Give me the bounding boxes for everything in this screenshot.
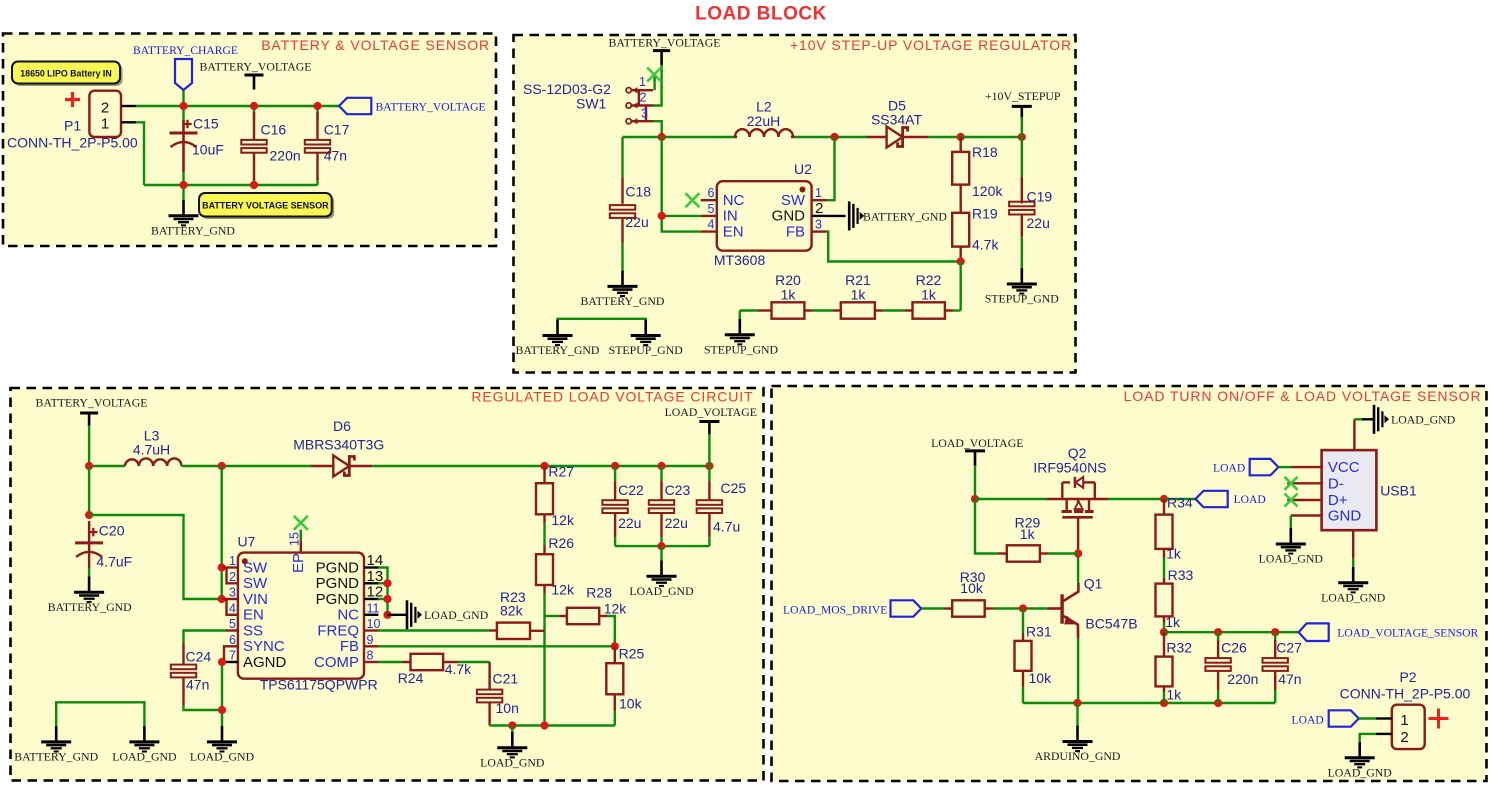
- wire power to SW1 pin2: [653, 65, 662, 105]
- svg-text:LOAD_VOLTAGE: LOAD_VOLTAGE: [931, 436, 1023, 450]
- ground LOAD_GND under C21: [511, 726, 513, 734]
- wire SW net vertical to U7: [220, 466, 222, 599]
- svg-text:220n: 220n: [270, 148, 301, 164]
- USB1 pin GND: [1291, 514, 1322, 516]
- svg-text:BATTERY_VOLTAGE: BATTERY_VOLTAGE: [609, 35, 721, 49]
- capacitor C26 220n: [1217, 632, 1219, 640]
- svg-text:2: 2: [101, 100, 109, 117]
- ground LOAD_GND under C23: [660, 561, 663, 577]
- svg-text:R24: R24: [398, 670, 424, 686]
- svg-text:10k: 10k: [619, 696, 643, 712]
- svg-text:AGND: AGND: [243, 654, 287, 671]
- svg-text:ARDUINO_GND: ARDUINO_GND: [1035, 749, 1121, 763]
- resistor R28 12k: [545, 615, 559, 617]
- svg-text:BATTERY_GND: BATTERY_GND: [151, 223, 235, 237]
- svg-text:L2: L2: [756, 99, 772, 115]
- sticker label 18650 LIPO Battery IN: [15, 64, 123, 86]
- U2 pin 2 GND: [812, 215, 826, 217]
- port BATTERY_CHARGE: [175, 59, 192, 90]
- wire C19 branch: [1021, 137, 1023, 177]
- battery plus polarity mark: [65, 98, 80, 101]
- svg-text:R25: R25: [619, 645, 645, 661]
- svg-text:CONN-TH_2P-P5.00: CONN-TH_2P-P5.00: [7, 135, 138, 151]
- resistor R23 82k on FREQ: [378, 629, 489, 631]
- svg-text:VIN: VIN: [243, 591, 268, 608]
- resistor R18 120k: [960, 137, 962, 152]
- svg-text:EN: EN: [243, 607, 264, 624]
- block frame: LOAD TURN ON/OFF & LOAD VOLTAGE SENSOR: [772, 386, 1487, 781]
- junction rail/+10V stem: [1018, 133, 1026, 141]
- svg-text:3: 3: [815, 218, 822, 232]
- diode D6 MBRS340T3G: [311, 465, 333, 467]
- svg-text:1k: 1k: [921, 287, 937, 303]
- svg-text:C16: C16: [261, 122, 287, 138]
- ground BATTERY_GND under C18: [621, 271, 624, 287]
- svg-text:BATTERY_GND: BATTERY_GND: [14, 750, 98, 764]
- port LOAD_VOLTAGE_SENSOR: [1299, 623, 1329, 641]
- sensor line: [1164, 631, 1299, 633]
- svg-text:LOAD_GND: LOAD_GND: [1391, 413, 1456, 427]
- svg-text:LOAD: LOAD: [1213, 462, 1245, 475]
- wire USB1 GND to ground: [1290, 516, 1292, 530]
- no-connect X on D-: [1285, 477, 1298, 490]
- U7 pin 7 AGND: [222, 661, 238, 663]
- svg-text:C26: C26: [1221, 640, 1247, 656]
- capacitor C21 10n: [488, 662, 490, 690]
- svg-text:10k: 10k: [960, 580, 984, 596]
- junction L2/D5 rail to U2 SW: [830, 133, 838, 141]
- U7 pin 4 EN tie to VIN: [227, 599, 238, 615]
- P1 pin 2: [121, 105, 136, 107]
- svg-text:LOAD_VOLTAGE: LOAD_VOLTAGE: [665, 405, 757, 419]
- svg-text:1: 1: [639, 75, 646, 89]
- USB1 bottom shield pin: [1352, 530, 1354, 558]
- svg-text:2: 2: [229, 570, 236, 584]
- svg-text:LOAD_MOS_DRIVE: LOAD_MOS_DRIVE: [783, 603, 887, 616]
- svg-text:NC: NC: [337, 607, 359, 624]
- svg-text:NC: NC: [723, 192, 745, 209]
- diode D5 SS34AT: [867, 136, 887, 138]
- svg-text:U2: U2: [794, 161, 812, 177]
- svg-text:Q2: Q2: [1068, 445, 1087, 461]
- inductor L3 4.7uH: [125, 458, 182, 466]
- U7 pin 2 SW tie to pin1: [227, 568, 238, 584]
- svg-text:R19: R19: [972, 206, 998, 222]
- svg-text:1: 1: [229, 554, 236, 568]
- svg-text:10n: 10n: [496, 700, 519, 716]
- svg-text:C22: C22: [618, 482, 644, 498]
- svg-text:R34: R34: [1167, 494, 1193, 510]
- svg-text:P2: P2: [1399, 669, 1416, 685]
- svg-text:12k: 12k: [604, 601, 628, 617]
- svg-text:R33: R33: [1168, 567, 1194, 583]
- rail D6 to LOAD_VOLTAGE corner: [545, 465, 710, 467]
- junction SW1/rail: [658, 133, 666, 141]
- capacitor C24 47n: [182, 643, 184, 665]
- svg-text:LOAD BLOCK: LOAD BLOCK: [695, 4, 827, 25]
- svg-text:C23: C23: [665, 482, 691, 498]
- svg-text:LOAD_GND: LOAD_GND: [112, 750, 177, 764]
- svg-text:Q1: Q1: [1084, 575, 1103, 591]
- svg-text:4.7u: 4.7u: [713, 519, 740, 535]
- svg-text:4.7k: 4.7k: [445, 661, 472, 677]
- junction rail/R18: [957, 133, 965, 141]
- svg-text:4.7uF: 4.7uF: [96, 553, 132, 569]
- svg-text:REGULATED LOAD VOLTAGE CIRCUIT: REGULATED LOAD VOLTAGE CIRCUIT: [471, 389, 753, 405]
- ground LOAD_GND under P2: [1358, 742, 1361, 758]
- wire C15 branch: [182, 106, 184, 120]
- resistor R19 4.7k: [952, 213, 969, 247]
- svg-text:C17: C17: [324, 122, 350, 138]
- power symbol BATTERY_VOLTAGE: [80, 412, 98, 415]
- wire C17 branch: [316, 106, 318, 120]
- ground flag BATTERY_GND at U2 GND pin: [826, 215, 846, 217]
- svg-text:FB: FB: [340, 638, 359, 655]
- junction dots on rail: [85, 462, 93, 470]
- svg-text:EP: EP: [290, 553, 307, 573]
- wire battery branch down to C20: [88, 466, 90, 515]
- svg-text:10k: 10k: [1029, 670, 1053, 686]
- resistor R26 12k: [543, 514, 545, 523]
- svg-text:1k: 1k: [851, 287, 867, 303]
- svg-text:47n: 47n: [1278, 671, 1301, 687]
- svg-text:LOAD_GND: LOAD_GND: [1259, 552, 1324, 566]
- svg-text:P1: P1: [64, 118, 81, 134]
- U7 pin 3 VIN: [222, 598, 238, 600]
- wire P1 pin1 to bottom rail: [136, 122, 144, 185]
- svg-text:COMP: COMP: [314, 654, 359, 671]
- wire Q2 drain to R34/LOAD: [1108, 498, 1164, 500]
- wire P1 pin2 to rail: [136, 105, 339, 107]
- svg-text:BATTERY_VOLTAGE: BATTERY_VOLTAGE: [200, 60, 312, 74]
- ground LOAD_GND under USB1 GND: [1290, 528, 1293, 544]
- resistor R24 4.7k on COMP: [378, 661, 401, 663]
- svg-text:6: 6: [708, 186, 715, 200]
- ground STEPUP_GND under R20: [738, 319, 741, 335]
- transistor Q1 BC547B NPN: [1060, 594, 1063, 623]
- wire U2 SW pin up to rail: [827, 137, 835, 200]
- U7 pin 5 SS: [226, 629, 238, 631]
- wire PGND bus: [378, 568, 387, 615]
- resistor R30 10k: [921, 607, 944, 609]
- block frame: +10V STEP-UP VOLTAGE REGULATOR: [514, 35, 1076, 373]
- IC U7 TPS61175QPWPR: [238, 553, 364, 679]
- resistors R20 R21 R22 1k chain: [740, 309, 758, 311]
- svg-text:C24: C24: [186, 649, 212, 665]
- svg-text:4.7k: 4.7k: [972, 237, 999, 253]
- resistor R32 1k: [1163, 632, 1165, 656]
- svg-text:22u: 22u: [665, 515, 688, 531]
- svg-text:TPS61175QPWPR: TPS61175QPWPR: [260, 677, 378, 693]
- svg-text:3: 3: [641, 106, 648, 120]
- wire to ARDUINO_GND: [1076, 703, 1078, 727]
- svg-text:LOAD_VOLTAGE_SENSOR: LOAD_VOLTAGE_SENSOR: [1337, 627, 1478, 640]
- IC USB1 connector: [1322, 450, 1377, 530]
- port BATTERY_VOLTAGE out: [339, 98, 371, 114]
- U7 EP pin 15 with no-connect: [294, 516, 308, 530]
- svg-text:R31: R31: [1026, 624, 1052, 640]
- svg-text:STEPUP_GND: STEPUP_GND: [985, 292, 1060, 306]
- U7 pin 1 SW: [222, 566, 238, 568]
- svg-text:SW: SW: [243, 559, 268, 576]
- gnd rail of block4: [1023, 702, 1275, 704]
- svg-text:SW1: SW1: [576, 96, 607, 112]
- U2 pin 6 NC: [701, 199, 717, 201]
- wire R30 to Q1 base: [1023, 607, 1047, 609]
- svg-text:4.7uH: 4.7uH: [133, 441, 170, 457]
- gnd rail under C22/C23/C25: [615, 545, 709, 547]
- port LOAD_MOS_DRIVE: [891, 600, 922, 616]
- sticker label BATTERY VOLTAGE SENSOR: [202, 196, 335, 220]
- junction dots bottom rail: [179, 181, 187, 189]
- ground pair bottom-left: [558, 319, 646, 321]
- power symbol LOAD_VOLTAGE: [699, 420, 719, 423]
- wire source rail to Q2: [975, 498, 1047, 500]
- svg-text:PGND: PGND: [316, 559, 360, 576]
- svg-text:1k: 1k: [1165, 614, 1181, 630]
- svg-text:BATTERY_GND: BATTERY_GND: [581, 294, 665, 308]
- svg-text:SS34AT: SS34AT: [871, 112, 923, 128]
- svg-text:7: 7: [229, 649, 236, 663]
- svg-text:PGND: PGND: [316, 591, 360, 608]
- capacitor C16 220n: [253, 112, 255, 140]
- svg-text:1k: 1k: [1166, 546, 1182, 562]
- rail D5 to +10V corner: [961, 136, 1022, 138]
- P2 pin 1: [1376, 717, 1392, 719]
- U2 pin1 indicator dot: [800, 187, 806, 193]
- svg-text:SS: SS: [243, 622, 263, 639]
- USB1 pin VCC: [1291, 466, 1322, 468]
- junction FB/R19: [957, 257, 965, 265]
- svg-text:10uF: 10uF: [192, 142, 224, 158]
- svg-text:15: 15: [288, 532, 302, 546]
- U2 pin 5 IN: [701, 215, 717, 217]
- svg-text:11: 11: [367, 601, 380, 615]
- svg-text:LOAD_GND: LOAD_GND: [190, 750, 255, 764]
- transistor Q2 IRF9540NS P-MOSFET: [1047, 498, 1108, 501]
- ground LOAD_GND under USB1: [1352, 567, 1355, 583]
- USB1 pin D-: [1287, 482, 1321, 484]
- P1 pin 1: [121, 121, 136, 123]
- svg-text:D-: D-: [1328, 475, 1344, 492]
- junction dots top rail: [179, 102, 187, 110]
- P2 polarity mark: [1429, 717, 1449, 720]
- svg-text:CONN-TH_2P-P5.00: CONN-TH_2P-P5.00: [1340, 685, 1471, 701]
- svg-text:BATTERY_GND: BATTERY_GND: [48, 600, 132, 614]
- wire P2 pin2 to ground: [1360, 734, 1376, 743]
- U2 pin 1 SW: [812, 199, 827, 201]
- capacitor C27 47n: [1274, 632, 1276, 640]
- svg-text:1: 1: [1400, 712, 1408, 729]
- svg-text:SW: SW: [781, 192, 806, 209]
- svg-text:3: 3: [229, 586, 236, 600]
- svg-text:BATTERY_VOLTAGE: BATTERY_VOLTAGE: [376, 101, 486, 114]
- capacitor C25 4.7u: [708, 466, 710, 481]
- svg-text:BATTERY_CHARGE: BATTERY_CHARGE: [133, 44, 238, 57]
- wire R20 to ground: [739, 311, 741, 321]
- svg-text:C19: C19: [1027, 189, 1053, 205]
- wire ground stem: [182, 185, 184, 201]
- svg-text:10: 10: [367, 617, 381, 631]
- capacitor C22 22u: [614, 466, 616, 481]
- svg-text:5: 5: [229, 617, 236, 631]
- bottom rail: [144, 184, 318, 186]
- inductor L2 22uH: [733, 136, 737, 138]
- gnd rail under C21/R25: [490, 724, 615, 726]
- power symbol BATTERY_VOLTAGE: [245, 74, 264, 77]
- svg-text:FREQ: FREQ: [317, 622, 359, 639]
- ground ARDUINO_GND: [1076, 726, 1079, 742]
- svg-text:+10V_STEPUP: +10V_STEPUP: [985, 89, 1061, 103]
- svg-text:C18: C18: [625, 184, 651, 200]
- svg-text:D+: D+: [1328, 492, 1348, 509]
- svg-text:BATTERY_GND: BATTERY_GND: [516, 343, 600, 357]
- svg-text:LOAD_GND: LOAD_GND: [424, 608, 489, 622]
- U7 pin 6 SYNC tie to AGND: [224, 646, 238, 662]
- svg-text:LOAD_GND: LOAD_GND: [480, 755, 545, 769]
- port LOAD from Q2 drain: [1196, 491, 1228, 507]
- U2 pin 4 EN: [701, 230, 717, 232]
- svg-text:SW: SW: [243, 575, 268, 592]
- svg-text:EN: EN: [723, 223, 744, 240]
- svg-text:12k: 12k: [551, 582, 575, 598]
- svg-text:22u: 22u: [625, 214, 648, 230]
- svg-text:LOAD: LOAD: [1234, 493, 1266, 506]
- svg-text:1k: 1k: [1020, 526, 1036, 542]
- svg-text:2: 2: [815, 200, 823, 217]
- wire Q2 gate down: [1077, 517, 1079, 549]
- resistor R29 1k: [998, 552, 1007, 554]
- svg-text:R26: R26: [548, 535, 574, 551]
- svg-text:LOAD_GND: LOAD_GND: [1321, 590, 1386, 604]
- svg-text:STEPUP_GND: STEPUP_GND: [609, 343, 684, 357]
- svg-text:U7: U7: [238, 533, 256, 549]
- svg-text:R27: R27: [548, 463, 574, 479]
- svg-text:22u: 22u: [618, 515, 641, 531]
- junction rail/U7-SW: [218, 462, 226, 470]
- capacitor C15 polarized 10uF: [182, 120, 185, 172]
- wire SW1 pin3 down to rail: [653, 121, 662, 137]
- wire SS to C24: [184, 631, 227, 644]
- resistor R27 12k: [543, 466, 545, 483]
- svg-text:VCC: VCC: [1328, 459, 1360, 476]
- U2 pin 3 FB: [812, 230, 827, 232]
- svg-text:GND: GND: [1328, 508, 1362, 525]
- no-connect X on U2 pin6: [685, 193, 699, 207]
- svg-text:D6: D6: [333, 418, 351, 434]
- svg-text:1k: 1k: [781, 287, 797, 303]
- svg-text:STEPUP_GND: STEPUP_GND: [704, 342, 779, 356]
- power symbol LOAD_VOLTAGE: [965, 449, 985, 452]
- wire C16 branch: [253, 106, 255, 120]
- power symbol +10V_STEPUP: [1012, 105, 1032, 108]
- svg-text:BATTERY VOLTAGE SENSOR: BATTERY VOLTAGE SENSOR: [202, 201, 329, 211]
- ground pair bottom-left of block3: [56, 702, 144, 727]
- wire FB line: [378, 645, 614, 647]
- capacitor C17 47n: [316, 112, 318, 140]
- svg-text:USB1: USB1: [1380, 483, 1417, 499]
- ground flag LOAD_GND top right: [1373, 405, 1376, 434]
- svg-text:18650 LIPO Battery IN: 18650 LIPO Battery IN: [20, 68, 111, 78]
- svg-text:FB: FB: [786, 223, 805, 240]
- svg-text:82k: 82k: [500, 603, 524, 619]
- svg-text:47n: 47n: [186, 677, 209, 693]
- wire R19 junction down to R22: [960, 262, 962, 311]
- wire R26 bottom to gnd rail: [543, 594, 545, 726]
- resistor R25 10k: [614, 646, 616, 663]
- power symbol BATTERY_VOLTAGE: [653, 49, 670, 52]
- wire AGND down to ground: [221, 662, 223, 727]
- svg-text:47n: 47n: [324, 148, 347, 164]
- svg-text:SYNC: SYNC: [243, 638, 285, 655]
- svg-text:LOAD TURN ON/OFF & LOAD VOLTAG: LOAD TURN ON/OFF & LOAD VOLTAGE SENSOR: [1124, 388, 1482, 404]
- svg-text:220n: 220n: [1227, 671, 1258, 687]
- svg-text:1: 1: [815, 186, 822, 200]
- svg-text:R32: R32: [1166, 640, 1192, 656]
- svg-text:9: 9: [367, 633, 374, 647]
- svg-text:GND: GND: [772, 208, 806, 225]
- ground LOAD_GND under U7 AGND: [221, 726, 224, 742]
- wire VIN from C20 junction: [89, 515, 222, 599]
- svg-text:BATTERY_VOLTAGE: BATTERY_VOLTAGE: [36, 396, 148, 410]
- resistor R33 1k: [1163, 578, 1165, 584]
- svg-text:IN: IN: [723, 208, 738, 225]
- svg-text:MBRS340T3G: MBRS340T3G: [293, 436, 384, 452]
- svg-text:BATTERY & VOLTAGE SENSOR: BATTERY & VOLTAGE SENSOR: [261, 37, 490, 53]
- svg-text:LOAD_GND: LOAD_GND: [629, 584, 694, 598]
- USB1 top shield pin to flag ground: [1353, 419, 1355, 450]
- svg-text:LOAD: LOAD: [1292, 713, 1324, 726]
- svg-text:5: 5: [708, 202, 715, 216]
- no-connect X on SW1 pin1: [647, 68, 661, 82]
- junction IN: [658, 212, 666, 220]
- wire BATTERY_CHARGE port to rail: [182, 90, 184, 106]
- capacitor C23 22u: [660, 466, 662, 481]
- resistor R34 1k: [1163, 499, 1165, 515]
- svg-text:C27: C27: [1276, 640, 1302, 656]
- svg-text:R18: R18: [972, 144, 998, 160]
- svg-text:22u: 22u: [1027, 215, 1050, 231]
- svg-text:C25: C25: [721, 480, 747, 496]
- svg-text:BATTERY_GND: BATTERY_GND: [863, 209, 947, 223]
- wire U2 FB to divider: [827, 232, 961, 262]
- ground BATTERY_GND under C20: [88, 577, 91, 593]
- capacitor C19 22u: [1021, 177, 1023, 203]
- block frame: BATTERY & VOLTAGE SENSOR: [3, 34, 496, 247]
- svg-text:22uH: 22uH: [747, 113, 780, 129]
- port LOAD to P2: [1329, 710, 1359, 726]
- svg-text:C21: C21: [493, 670, 519, 686]
- wire SW1 pin1 to no-connect: [653, 76, 655, 91]
- block frame: REGULATED LOAD VOLTAGE CIRCUIT: [11, 388, 764, 781]
- svg-text:MT3608: MT3608: [714, 252, 766, 268]
- ground STEPUP_GND under C19: [1020, 268, 1023, 284]
- svg-text:+10V STEP-UP VOLTAGE REGULATOR: +10V STEP-UP VOLTAGE REGULATOR: [790, 37, 1072, 53]
- wire R29 branch: [975, 499, 998, 554]
- svg-text:R28: R28: [586, 585, 612, 601]
- resistor R31 10k: [1022, 609, 1024, 634]
- ground flag LOAD_GND at U7 PGND: [388, 614, 408, 616]
- switch SW1 SS-12D03-G2: [626, 88, 631, 93]
- svg-text:8: 8: [367, 649, 374, 663]
- junction C20/VIN: [85, 511, 93, 519]
- svg-text:12k: 12k: [551, 512, 575, 528]
- USB1 pin D+: [1287, 499, 1321, 501]
- svg-text:1k: 1k: [1166, 686, 1182, 702]
- svg-text:LOAD_GND: LOAD_GND: [1328, 765, 1393, 779]
- svg-text:4: 4: [229, 601, 236, 615]
- ground BATTERY_GND: [182, 200, 185, 216]
